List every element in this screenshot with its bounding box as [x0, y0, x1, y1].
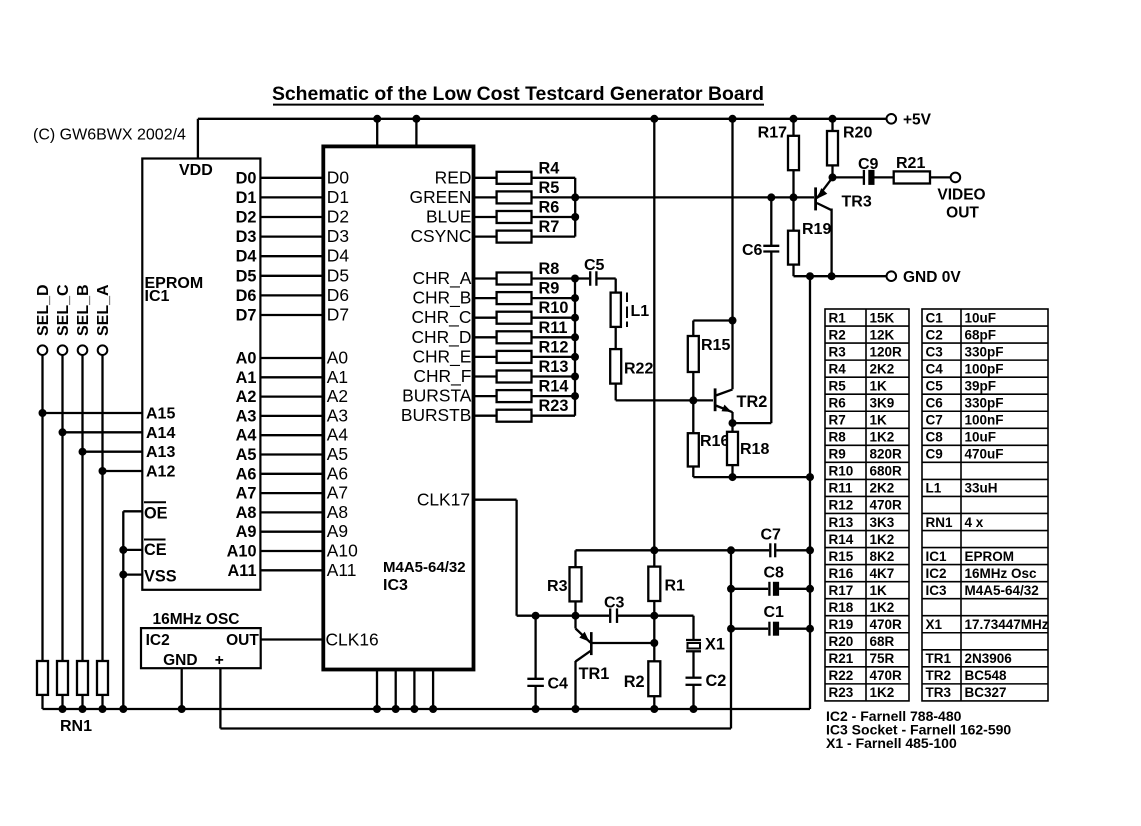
svg-text:CHR_E: CHR_E — [412, 346, 471, 366]
svg-text:A7: A7 — [236, 485, 257, 503]
svg-text:IC3: IC3 — [926, 583, 948, 598]
svg-text:(C) GW6BWX 2002/4: (C) GW6BWX 2002/4 — [33, 127, 186, 144]
svg-text:16MHz OSC: 16MHz OSC — [153, 611, 240, 628]
svg-text:C3: C3 — [604, 595, 625, 612]
svg-text:CHR_C: CHR_C — [411, 307, 471, 327]
svg-text:OE: OE — [144, 505, 168, 523]
svg-text:470uF: 470uF — [965, 447, 1004, 462]
svg-text:D2: D2 — [327, 207, 349, 227]
svg-text:2N3906: 2N3906 — [965, 651, 1013, 666]
svg-text:17.73447MHz: 17.73447MHz — [965, 617, 1049, 632]
svg-text:RN1: RN1 — [60, 718, 92, 735]
svg-text:D3: D3 — [327, 226, 349, 246]
svg-text:R23: R23 — [539, 397, 569, 415]
svg-text:A6: A6 — [236, 465, 257, 483]
svg-text:16MHz Osc: 16MHz Osc — [965, 566, 1038, 581]
svg-text:R17: R17 — [758, 125, 787, 142]
svg-text:A9: A9 — [236, 523, 257, 541]
svg-text:C4: C4 — [548, 676, 569, 693]
svg-text:C1: C1 — [764, 604, 785, 621]
svg-text:R1: R1 — [829, 310, 847, 325]
svg-text:RN1: RN1 — [926, 515, 953, 530]
svg-text:C2: C2 — [926, 327, 943, 342]
svg-text:A7: A7 — [327, 483, 348, 503]
svg-text:R21: R21 — [829, 651, 854, 666]
svg-text:1K2: 1K2 — [870, 600, 895, 615]
svg-text:3K3: 3K3 — [870, 515, 895, 530]
svg-text:R15: R15 — [701, 337, 730, 354]
svg-text:D6: D6 — [236, 287, 257, 305]
svg-text:A14: A14 — [146, 425, 175, 442]
svg-text:R9: R9 — [539, 280, 560, 298]
svg-text:C1: C1 — [926, 310, 944, 325]
svg-text:R13: R13 — [539, 358, 569, 376]
svg-text:GREEN: GREEN — [410, 187, 472, 207]
svg-text:C6: C6 — [742, 242, 763, 259]
svg-text:VSS: VSS — [144, 568, 177, 586]
svg-text:CE: CE — [144, 541, 167, 559]
svg-text:CHR_D: CHR_D — [411, 327, 471, 347]
svg-text:R1: R1 — [665, 578, 686, 595]
svg-text:R7: R7 — [829, 413, 846, 428]
svg-text:A0: A0 — [327, 348, 348, 368]
svg-text:A5: A5 — [327, 444, 348, 464]
svg-text:R7: R7 — [539, 218, 560, 236]
svg-text:C9: C9 — [858, 156, 879, 173]
svg-text:A9: A9 — [327, 521, 348, 541]
svg-text:R19: R19 — [802, 221, 831, 238]
svg-text:R2: R2 — [624, 673, 645, 691]
svg-text:R14: R14 — [539, 378, 569, 396]
svg-text:SEL_C: SEL_C — [55, 284, 72, 336]
svg-text:D6: D6 — [327, 285, 349, 305]
svg-text:D4: D4 — [327, 246, 350, 266]
svg-text:680R: 680R — [870, 464, 903, 479]
svg-text:R13: R13 — [829, 515, 854, 530]
svg-text:BLUE: BLUE — [426, 207, 471, 227]
svg-text:R11: R11 — [539, 319, 568, 337]
svg-text:R6: R6 — [539, 199, 560, 217]
svg-text:R22: R22 — [624, 361, 653, 378]
svg-text:D5: D5 — [236, 267, 257, 285]
svg-text:D7: D7 — [327, 305, 349, 325]
svg-text:470R: 470R — [870, 668, 903, 683]
svg-text:OUT: OUT — [226, 632, 259, 649]
svg-text:C8: C8 — [926, 430, 944, 445]
svg-text:CHR_B: CHR_B — [412, 288, 471, 308]
svg-text:C7: C7 — [926, 413, 943, 428]
svg-text:33uH: 33uH — [965, 481, 998, 496]
svg-text:A8: A8 — [236, 504, 257, 522]
svg-text:A10: A10 — [327, 541, 358, 561]
svg-text:A8: A8 — [327, 502, 348, 522]
svg-text:39pF: 39pF — [965, 378, 997, 393]
svg-text:X1: X1 — [705, 636, 725, 654]
svg-text:D1: D1 — [327, 187, 349, 207]
svg-text:C2: C2 — [706, 672, 727, 690]
svg-text:1K2: 1K2 — [870, 685, 895, 700]
svg-text:75R: 75R — [870, 651, 895, 666]
svg-text:R19: R19 — [829, 617, 854, 632]
svg-text:A3: A3 — [327, 405, 348, 425]
svg-text:1K: 1K — [870, 413, 888, 428]
svg-text:R8: R8 — [539, 260, 560, 278]
svg-text:A4: A4 — [236, 427, 257, 445]
svg-text:R20: R20 — [829, 634, 854, 649]
svg-text:R3: R3 — [547, 578, 568, 595]
svg-text:R4: R4 — [539, 159, 560, 177]
svg-text:R12: R12 — [539, 338, 569, 356]
svg-text:R14: R14 — [829, 532, 854, 547]
svg-text:1K2: 1K2 — [870, 430, 895, 445]
svg-text:C7: C7 — [761, 527, 782, 544]
svg-text:IC1: IC1 — [145, 288, 170, 305]
svg-text:330pF: 330pF — [965, 344, 1004, 359]
svg-text:15K: 15K — [870, 310, 895, 325]
svg-text:A4: A4 — [327, 425, 349, 445]
svg-text:100nF: 100nF — [965, 413, 1004, 428]
svg-text:+: + — [215, 652, 224, 669]
svg-text:R12: R12 — [829, 498, 854, 513]
svg-text:VIDEO: VIDEO — [937, 187, 985, 204]
svg-text:L1: L1 — [631, 303, 650, 320]
svg-text:R10: R10 — [829, 464, 854, 479]
svg-text:M4A5-64/32: M4A5-64/32 — [383, 559, 466, 576]
svg-text:A10: A10 — [227, 543, 257, 561]
svg-text:C5: C5 — [926, 378, 944, 393]
svg-text:A13: A13 — [146, 444, 175, 461]
svg-text:C6: C6 — [926, 396, 944, 411]
svg-text:D0: D0 — [327, 167, 349, 187]
svg-text:D7: D7 — [236, 307, 257, 325]
svg-text:IC3: IC3 — [383, 577, 408, 594]
svg-text:1K2: 1K2 — [870, 532, 895, 547]
svg-text:R10: R10 — [539, 299, 569, 317]
svg-text:X1 - Farnell 485-100: X1 - Farnell 485-100 — [826, 735, 957, 751]
svg-text:D2: D2 — [236, 209, 257, 227]
svg-text:A1: A1 — [236, 369, 257, 387]
svg-text:R6: R6 — [829, 396, 847, 411]
svg-text:R5: R5 — [539, 179, 560, 197]
svg-text:820R: 820R — [870, 447, 903, 462]
svg-text:BURSTA: BURSTA — [402, 386, 472, 406]
svg-text:4K7: 4K7 — [870, 566, 895, 581]
svg-text:GND 0V: GND 0V — [903, 269, 961, 286]
svg-text:D3: D3 — [236, 228, 257, 246]
svg-text:BC327: BC327 — [965, 685, 1007, 700]
svg-text:CLK17: CLK17 — [417, 490, 470, 510]
svg-text:SEL_D: SEL_D — [35, 284, 52, 336]
svg-text:CSYNC: CSYNC — [411, 226, 472, 246]
svg-text:A15: A15 — [146, 406, 175, 423]
svg-text:R20: R20 — [843, 125, 872, 142]
svg-text:R5: R5 — [829, 378, 847, 393]
svg-text:SEL_B: SEL_B — [75, 284, 92, 336]
svg-text:OUT: OUT — [946, 205, 979, 222]
svg-text:C4: C4 — [926, 361, 944, 376]
svg-text:470R: 470R — [870, 498, 903, 513]
svg-text:+5V: +5V — [903, 112, 932, 129]
svg-text:10uF: 10uF — [965, 310, 997, 325]
svg-text:8K2: 8K2 — [870, 549, 895, 564]
svg-text:2K2: 2K2 — [870, 361, 895, 376]
svg-text:X1: X1 — [926, 617, 943, 632]
svg-text:1K: 1K — [870, 378, 888, 393]
svg-text:68pF: 68pF — [965, 327, 997, 342]
svg-text:SEL_A: SEL_A — [95, 284, 112, 336]
svg-text:D5: D5 — [327, 265, 349, 285]
svg-text:R4: R4 — [829, 361, 847, 376]
svg-text:R15: R15 — [829, 549, 854, 564]
svg-text:TR3: TR3 — [842, 194, 872, 211]
svg-text:IC2: IC2 — [146, 632, 170, 649]
svg-text:R22: R22 — [829, 668, 854, 683]
svg-text:TR1: TR1 — [579, 665, 610, 683]
svg-text:M4A5-64/32: M4A5-64/32 — [965, 583, 1039, 598]
svg-text:10uF: 10uF — [965, 430, 997, 445]
svg-text:CLK16: CLK16 — [326, 630, 379, 650]
svg-text:330pF: 330pF — [965, 396, 1004, 411]
svg-text:IC1: IC1 — [926, 549, 948, 564]
svg-text:100pF: 100pF — [965, 361, 1004, 376]
svg-text:TR3: TR3 — [926, 685, 952, 700]
svg-text:3K9: 3K9 — [870, 396, 895, 411]
svg-text:CHR_F: CHR_F — [413, 366, 471, 386]
svg-text:R21: R21 — [896, 155, 925, 172]
svg-text:CHR_A: CHR_A — [412, 268, 471, 288]
svg-text:R2: R2 — [829, 327, 846, 342]
svg-text:D4: D4 — [236, 248, 257, 266]
svg-text:C9: C9 — [926, 447, 943, 462]
svg-text:A11: A11 — [327, 560, 357, 580]
svg-text:R16: R16 — [700, 433, 729, 450]
svg-text:A6: A6 — [327, 463, 348, 483]
svg-text:A11: A11 — [228, 562, 257, 580]
svg-text:D1: D1 — [236, 189, 257, 207]
svg-text:1K: 1K — [870, 583, 888, 598]
svg-text:R18: R18 — [829, 600, 854, 615]
svg-text:2K2: 2K2 — [870, 481, 895, 496]
svg-text:A1: A1 — [327, 367, 348, 387]
svg-text:L1: L1 — [926, 481, 942, 496]
svg-text:A2: A2 — [327, 386, 348, 406]
svg-text:VDD: VDD — [179, 162, 213, 179]
svg-text:R16: R16 — [829, 566, 854, 581]
svg-text:A2: A2 — [236, 388, 257, 406]
svg-text:TR1: TR1 — [926, 651, 952, 666]
svg-text:C8: C8 — [764, 564, 785, 581]
svg-text:68R: 68R — [870, 634, 895, 649]
svg-text:A3: A3 — [236, 407, 257, 425]
svg-text:BURSTB: BURSTB — [401, 405, 472, 425]
svg-text:EPROM: EPROM — [965, 549, 1015, 564]
svg-text:470R: 470R — [870, 617, 903, 632]
svg-text:120R: 120R — [870, 344, 903, 359]
svg-text:A5: A5 — [236, 446, 257, 464]
svg-text:TR2: TR2 — [737, 393, 768, 411]
svg-text:R11: R11 — [829, 481, 854, 496]
svg-text:D0: D0 — [236, 169, 257, 187]
svg-text:A12: A12 — [146, 464, 175, 481]
svg-text:Schematic of the Low Cost Test: Schematic of the Low Cost Testcard Gener… — [272, 83, 764, 105]
svg-text:A0: A0 — [236, 350, 257, 368]
svg-text:RED: RED — [435, 167, 472, 187]
svg-text:R8: R8 — [829, 430, 847, 445]
svg-text:4 x: 4 x — [965, 515, 984, 530]
svg-text:C3: C3 — [926, 344, 944, 359]
svg-text:R9: R9 — [829, 447, 846, 462]
svg-text:C5: C5 — [584, 257, 605, 274]
svg-text:R18: R18 — [740, 441, 769, 458]
svg-text:12K: 12K — [870, 327, 895, 342]
svg-text:TR2: TR2 — [926, 668, 952, 683]
svg-text:R3: R3 — [829, 344, 847, 359]
svg-text:BC548: BC548 — [965, 668, 1008, 683]
svg-text:R17: R17 — [829, 583, 854, 598]
svg-text:IC2: IC2 — [926, 566, 947, 581]
svg-text:R23: R23 — [829, 685, 854, 700]
svg-text:GND: GND — [163, 652, 197, 669]
